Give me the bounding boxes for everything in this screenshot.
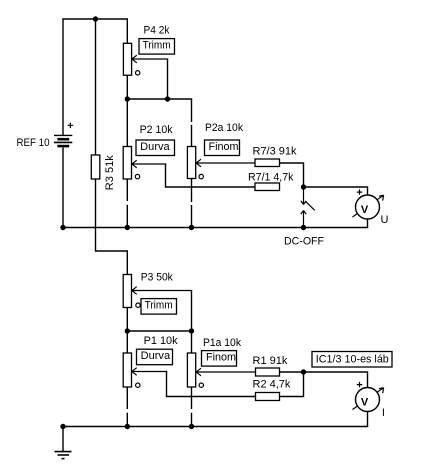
wire P1 bottom lead	[126, 387, 128, 427]
potentiometer P2a terminal circle	[199, 174, 203, 178]
junction bottom rail P1	[125, 424, 130, 429]
junction P4 wiper	[165, 96, 170, 101]
resistor R7/1	[255, 183, 280, 191]
wire R3 top lead	[95, 19, 97, 155]
wire P4 bottom lead	[126, 75, 128, 99]
svg-text:P1 10k: P1 10k	[144, 335, 178, 347]
svg-text:R1 91k: R1 91k	[253, 355, 288, 367]
svg-text:V: V	[361, 204, 369, 216]
label box Trimm (P3)	[141, 299, 177, 315]
wire P4 top lead	[126, 19, 128, 43]
node junction R3 top	[93, 16, 98, 21]
resistor R2	[256, 393, 280, 401]
label box Durva (P1)	[137, 349, 173, 365]
junction bottom rail battery	[60, 424, 65, 429]
node 1 wire	[127, 98, 192, 100]
svg-text:DC-OFF: DC-OFF	[284, 236, 324, 248]
resistor R3 body	[91, 155, 100, 179]
wire R3 bottom jog to P3	[96, 179, 128, 275]
junction switch top	[301, 184, 306, 189]
label box Finom (P2a)	[205, 140, 240, 156]
svg-text:Finom: Finom	[209, 141, 239, 153]
junction mid rail battery	[60, 225, 65, 230]
wire meter I bottom lead	[367, 412, 369, 427]
junction P3 wiper P1a	[189, 328, 194, 333]
potentiometer P1 terminal circle	[136, 383, 140, 387]
svg-text:Durva: Durva	[140, 141, 170, 153]
label box Trimm (P4)	[139, 39, 175, 55]
junction R1-R2	[301, 369, 306, 374]
wire R2 right up to junction	[280, 372, 304, 397]
svg-text:P2a 10k: P2a 10k	[205, 122, 243, 134]
svg-text:I: I	[382, 407, 385, 419]
mid rail wire	[62, 227, 368, 229]
svg-text:IC1/3 10-es láb: IC1/3 10-es láb	[316, 354, 389, 366]
potentiometer P2 wiper arrow	[132, 160, 166, 168]
svg-text:R3 51k: R3 51k	[104, 155, 116, 190]
label box Durva (P2)	[136, 140, 175, 156]
potentiometer P4 body	[123, 43, 131, 75]
wire P1a bottom lead	[191, 387, 193, 427]
svg-text:P2 10k: P2 10k	[140, 124, 173, 136]
wire P2 bottom lead	[126, 179, 128, 228]
potentiometer P3 terminal circle	[136, 303, 140, 307]
svg-text:REF 10: REF 10	[17, 137, 50, 149]
potentiometer P1a terminal circle	[199, 383, 203, 387]
potentiometer P3 wiper arrow	[132, 287, 192, 295]
wire P2 top lead	[126, 99, 128, 147]
wire P1 wiper jog to R2	[167, 372, 256, 397]
wire P3 bottom lead	[126, 308, 128, 332]
potentiometer P1a body	[187, 353, 195, 387]
junction mid rail P2a	[189, 225, 194, 230]
wire R1 right to junction	[280, 371, 304, 373]
potentiometer P3 body	[123, 275, 131, 308]
node 2 wire	[127, 330, 192, 332]
resistor R1	[256, 368, 280, 376]
svg-text:V: V	[361, 397, 369, 409]
label box IC1/3 10-es lab	[312, 352, 392, 368]
wire P2a top lead	[191, 99, 193, 147]
wire battery top lead	[62, 19, 64, 135]
potentiometer P2a wiper arrow	[196, 159, 255, 167]
label box Finom (P1a)	[202, 351, 237, 367]
svg-text:R7/3 91k: R7/3 91k	[253, 146, 298, 158]
svg-text:R7/1 4,7k: R7/1 4,7k	[248, 172, 294, 184]
svg-text:P3 50k: P3 50k	[141, 271, 173, 283]
potentiometer P2 terminal circle	[135, 174, 139, 178]
potentiometer P2a body	[187, 147, 195, 179]
svg-text:Trimm: Trimm	[145, 300, 173, 312]
potentiometer P1 body	[123, 353, 131, 387]
svg-text:Trimm: Trimm	[143, 40, 171, 52]
potentiometer P1 wiper arrow	[132, 368, 167, 376]
wire junction to meter I	[304, 372, 368, 388]
junction switch bottom	[301, 225, 306, 230]
bottom rail wire	[62, 426, 368, 428]
battery REF 10	[54, 123, 73, 147]
wire battery bottom lead	[62, 148, 64, 228]
junction bottom rail P1a	[189, 424, 194, 429]
wire P3 wiper jog down	[191, 291, 193, 332]
junction mid rail P2	[125, 225, 130, 230]
wire meter U bottom lead	[367, 219, 369, 228]
svg-text:Finom: Finom	[206, 352, 236, 364]
potentiometer P2 body	[123, 147, 131, 180]
potentiometer P1a wiper arrow	[196, 368, 255, 376]
ground	[55, 427, 72, 459]
voltmeter U	[353, 189, 384, 219]
wire junction to meter U	[304, 187, 368, 195]
svg-text:U: U	[381, 214, 389, 226]
wire P2 wiper jog to R7/1	[166, 164, 256, 187]
potentiometer P4 wiper arrow	[132, 55, 168, 63]
wire R7/3 right to junction	[280, 163, 304, 187]
wire P2a bottom lead	[191, 179, 193, 228]
svg-text:P1a 10k: P1a 10k	[203, 337, 241, 349]
switch DC-OFF	[301, 187, 315, 228]
junction P3-P1	[125, 328, 130, 333]
svg-text:P4 2k: P4 2k	[144, 24, 170, 36]
junction P4-P2	[125, 96, 130, 101]
svg-text:R2 4,7k: R2 4,7k	[253, 379, 291, 391]
potentiometer P4 terminal circle	[136, 71, 140, 75]
wire P4 wiper jog down	[167, 59, 169, 99]
svg-text:Durva: Durva	[141, 350, 171, 362]
wire P1 top lead	[126, 331, 128, 353]
resistor R7/3	[255, 159, 280, 167]
wire P1a top lead	[191, 331, 193, 353]
ammeter I (voltmeter symbol)	[353, 382, 384, 412]
wire top rail	[62, 18, 128, 20]
